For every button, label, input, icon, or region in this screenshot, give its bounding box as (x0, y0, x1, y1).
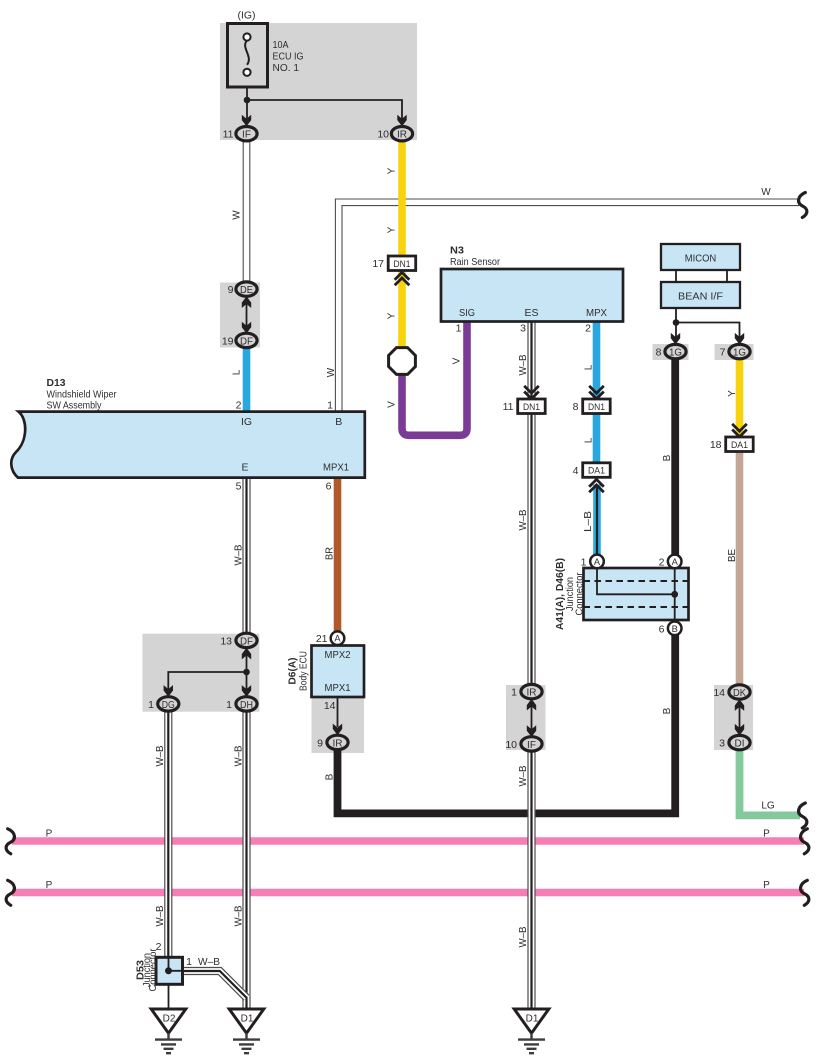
wire D53 to ground D2 (168, 985, 170, 1010)
arrow down into 10 IF (527, 725, 536, 737)
double chevron below 4 DA1 (589, 479, 604, 492)
junction connector pin 2 A (668, 555, 682, 569)
svg-text:ECU IG: ECU IG (273, 51, 304, 63)
svg-text:6: 6 (326, 481, 332, 493)
svg-text:SIG: SIG (459, 307, 475, 319)
ground D1 center (514, 1009, 549, 1053)
svg-text:IF: IF (242, 130, 251, 141)
gray background 7 1G connector (715, 344, 754, 360)
junction connector D53 box (156, 957, 183, 984)
svg-text:7: 7 (720, 347, 726, 359)
svg-text:Y: Y (727, 390, 738, 397)
svg-text:3: 3 (520, 323, 526, 335)
label N3 rain sensor (450, 244, 500, 267)
svg-text:DI: DI (735, 739, 745, 750)
svg-text:A: A (594, 557, 601, 567)
fuse 10A ECU IG NO.1 (228, 24, 268, 88)
wire W from IF to DE (243, 141, 251, 283)
connector 1 DH (236, 697, 257, 711)
svg-text:MICON: MICON (685, 252, 717, 264)
gray background 8 1G connector (653, 344, 689, 360)
svg-text:Rain Sensor: Rain Sensor (450, 256, 500, 268)
svg-text:DE: DE (240, 285, 253, 296)
connector 9 DE (236, 282, 257, 296)
svg-text:1G: 1G (669, 348, 682, 359)
svg-text:Connector: Connector (147, 948, 159, 991)
wire B from 8 1G to junction connector pin 2A (671, 359, 679, 555)
wire body ECU pin 14 to 9 IR (337, 697, 339, 727)
svg-text:14: 14 (713, 687, 725, 699)
links MICON to BEAN (676, 270, 727, 282)
svg-text:IR: IR (397, 130, 407, 141)
svg-text:19: 19 (222, 335, 234, 347)
junction connector A41(A) D46(B) box (584, 568, 689, 620)
svg-text:L: L (583, 364, 594, 370)
svg-text:A: A (334, 634, 341, 644)
svg-text:W–B: W–B (518, 926, 529, 947)
svg-text:8: 8 (656, 347, 662, 359)
svg-text:11: 11 (223, 129, 234, 141)
svg-text:DG: DG (162, 700, 175, 711)
svg-text:DN1: DN1 (394, 259, 411, 269)
svg-text:MPX1: MPX1 (325, 682, 351, 694)
svg-text:BEAN I/F: BEAN I/F (678, 290, 723, 302)
svg-text:L: L (231, 369, 242, 375)
gray background DF/DG/DH connector group (142, 634, 259, 712)
wire W-B from N3 pin ES to 1 IR (527, 321, 535, 685)
wire B from 9 IR to junction connector pin 6B (338, 635, 676, 813)
wire P upper rail (12, 837, 804, 844)
svg-text:MPX: MPX (586, 307, 607, 319)
connector 14 DK (729, 685, 750, 699)
connector 17 DN1 (388, 256, 416, 271)
body ECU pin 21 A (331, 631, 345, 645)
connector 10 IF (521, 737, 542, 751)
arrow down into 3 DI (735, 724, 744, 736)
svg-text:W–B: W–B (155, 905, 166, 926)
label D6(A) body ECU (287, 651, 310, 691)
arrow up into DE (242, 296, 251, 308)
svg-text:IG: IG (241, 416, 252, 428)
noise filter octagon (389, 348, 416, 375)
svg-text:21: 21 (316, 633, 328, 645)
svg-text:P: P (763, 880, 770, 891)
connector 7 1G (729, 344, 750, 358)
svg-text:1: 1 (511, 687, 517, 699)
svg-text:W–B: W–B (233, 544, 244, 565)
gray background 1 IR / 10 IF connector pair (506, 685, 546, 750)
svg-text:A: A (672, 557, 679, 567)
double chevron above 18 DA1 (732, 424, 747, 437)
svg-text:L–B: L–B (583, 511, 594, 532)
arrow into 1 DG (164, 685, 173, 697)
wire BE from 18 DA1 to 14 DK (736, 451, 744, 685)
svg-text:Windshield Wiper: Windshield Wiper (47, 388, 117, 400)
label 10A ECU IG NO. 1 (273, 39, 304, 74)
break symbol P lower right (801, 880, 809, 905)
svg-text:8: 8 (573, 401, 579, 413)
svg-text:1: 1 (581, 556, 587, 568)
wire BR from D13 pin MPX1 to body ECU pin 21A (334, 477, 342, 632)
D53 pin number 1 and W-B label (186, 956, 220, 968)
wire L from N3 pin MPX to 4 DA1 (593, 321, 601, 477)
D13 windshield wiper SW assembly box (11, 412, 365, 478)
break symbol W wire right (799, 193, 807, 218)
svg-text:18: 18 (710, 439, 722, 451)
gray background DE/DF connector pair (220, 283, 260, 348)
svg-text:P: P (46, 828, 53, 839)
svg-text:W–B: W–B (198, 957, 220, 968)
wire BEAN to 1G connectors (676, 308, 740, 338)
svg-text:(IG): (IG) (238, 10, 256, 22)
svg-text:B: B (672, 624, 678, 634)
svg-text:DN1: DN1 (523, 402, 540, 412)
junction connector pin 1 A (590, 555, 604, 569)
svg-text:W: W (761, 187, 771, 198)
svg-text:10: 10 (505, 739, 517, 751)
svg-text:W–B: W–B (155, 745, 166, 766)
wire W-B from 1 DH to ground D1 left (242, 711, 250, 1008)
svg-text:Y: Y (386, 167, 397, 174)
svg-text:V: V (452, 357, 463, 364)
break symbol P upper left (6, 829, 14, 854)
ground D1 left (229, 1009, 264, 1053)
connector 3 DI (729, 735, 750, 749)
svg-text:Body ECU: Body ECU (298, 651, 310, 691)
svg-text:IR: IR (333, 738, 343, 749)
svg-text:14: 14 (324, 700, 336, 712)
break symbol LG wire right (799, 803, 807, 828)
arrow into 1 DH (242, 685, 251, 697)
wire V from noise filter to N3 pin SIG (402, 321, 467, 435)
svg-text:E: E (241, 462, 248, 474)
MICON box (661, 244, 740, 270)
double chevron above 11 DN1 (524, 386, 539, 399)
BEAN I/F box (661, 282, 740, 308)
double chevron above 8 DN1 (589, 386, 604, 399)
svg-text:1: 1 (327, 400, 333, 412)
gray background below body ECU (9 IR) (312, 697, 365, 753)
connector 1 DG (158, 697, 179, 711)
svg-text:W: W (231, 210, 242, 220)
wire W-B from D53 pin 1 joining D1 ground wire (183, 971, 247, 998)
wire Y from IR to noise filter (398, 141, 406, 349)
svg-text:D13: D13 (47, 377, 66, 389)
svg-text:N3: N3 (450, 244, 464, 256)
arrow up into 13 DF (242, 648, 251, 660)
wire Y from 7 1G to 18 DA1 (736, 359, 744, 444)
arrow up into 1 IR (527, 699, 536, 711)
break symbol P lower left (6, 880, 14, 905)
link line DE to DF (246, 299, 248, 331)
wire W horizontal from right break down to D13 pin B (339, 202, 799, 411)
svg-text:DA1: DA1 (588, 466, 605, 476)
svg-text:P: P (763, 828, 770, 839)
connector 19 DF (236, 333, 257, 347)
svg-text:B: B (662, 707, 673, 714)
svg-text:B: B (335, 416, 342, 428)
arrow into 9 IR (333, 724, 342, 736)
svg-text:L: L (583, 437, 594, 443)
svg-text:V: V (387, 401, 398, 408)
gray background 14 DK / 3 DI connector pair (714, 685, 753, 750)
svg-text:D1: D1 (241, 1013, 254, 1024)
connector 18 DA1 (726, 437, 754, 452)
wire LG from 3 DI to right break (740, 750, 801, 816)
wire L from DF to D13 pin IG (243, 348, 251, 414)
svg-text:1: 1 (456, 323, 462, 335)
svg-text:2: 2 (659, 556, 665, 568)
svg-text:D2: D2 (163, 1013, 176, 1024)
connector 8 1G (665, 344, 686, 358)
svg-text:SW Assembly: SW Assembly (47, 400, 103, 412)
arrow up into 14 DK (735, 699, 744, 711)
wire W-B from D13 pin E to 13 DF (242, 477, 250, 633)
svg-text:1G: 1G (733, 348, 746, 359)
svg-text:1: 1 (226, 699, 232, 711)
svg-text:IF: IF (527, 740, 536, 751)
ground D2 (151, 1009, 186, 1053)
svg-text:DK: DK (733, 688, 746, 699)
svg-text:DA1: DA1 (731, 440, 748, 450)
double chevron below 17 DN1 (395, 272, 410, 285)
connector 11 DN1 (518, 399, 546, 414)
svg-text:2: 2 (585, 323, 591, 335)
connector 13 DF (236, 633, 257, 647)
svg-text:10: 10 (377, 129, 389, 141)
svg-text:17: 17 (372, 258, 384, 270)
connector 4 DA1 (583, 463, 611, 478)
connector 11 IF (236, 127, 257, 141)
svg-text:W–B: W–B (518, 509, 529, 530)
svg-text:D1: D1 (526, 1013, 539, 1024)
arrow into 10 IR (397, 115, 406, 127)
svg-text:Y: Y (386, 226, 397, 233)
label D13 (47, 377, 117, 412)
svg-text:6: 6 (659, 623, 665, 635)
svg-text:MPX2: MPX2 (325, 649, 351, 661)
svg-text:W–B: W–B (233, 905, 244, 926)
svg-text:W–B: W–B (233, 745, 244, 766)
svg-text:NO. 1: NO. 1 (273, 62, 300, 74)
label D53 junction connector (135, 948, 160, 991)
wire L-B from 4 DA1 to junction connector pin 1A (593, 485, 601, 556)
svg-text:ES: ES (524, 307, 538, 319)
svg-text:9: 9 (317, 737, 323, 749)
body ECU D6(A) box (312, 646, 365, 698)
svg-text:W–B: W–B (518, 765, 529, 786)
connector 1 IR (521, 684, 542, 698)
arrow into 7 1G (735, 333, 744, 345)
svg-text:LG: LG (761, 801, 775, 812)
svg-text:2: 2 (156, 941, 162, 953)
wire fuse to junction dot (246, 76, 248, 100)
svg-text:BR: BR (325, 547, 336, 560)
N3 rain sensor box (441, 269, 623, 322)
svg-text:1: 1 (148, 699, 154, 711)
svg-text:2: 2 (236, 400, 242, 412)
svg-text:5: 5 (236, 481, 242, 493)
svg-text:DH: DH (240, 700, 253, 711)
svg-text:P: P (46, 880, 53, 891)
svg-text:W: W (326, 367, 337, 377)
break symbol P upper right (801, 829, 809, 854)
link line IR to IF (531, 702, 533, 735)
svg-text:4: 4 (573, 465, 579, 477)
svg-text:W–B: W–B (518, 354, 529, 375)
svg-text:Y: Y (386, 312, 397, 319)
connector 8 DN1 (583, 399, 611, 414)
svg-text:MPX1: MPX1 (323, 462, 349, 474)
arrow into 11 IF (242, 115, 251, 127)
fuse block gray background (220, 23, 417, 140)
wire junction to IR (247, 100, 402, 119)
arrow down into DF (242, 322, 251, 334)
svg-text:10A: 10A (273, 39, 289, 51)
svg-text:13: 13 (220, 635, 232, 647)
connector 9 IR (327, 735, 348, 749)
svg-text:Connector: Connector (574, 572, 586, 615)
wire P lower rail (12, 889, 804, 896)
svg-text:B: B (325, 773, 336, 780)
svg-text:DF: DF (240, 336, 253, 347)
label junction connector A41 (564, 572, 586, 615)
junction connector pin 6 B (668, 622, 682, 636)
svg-text:DN1: DN1 (588, 402, 605, 412)
svg-text:11: 11 (503, 401, 514, 413)
wire W-B from 1 DG to junction connector D53 (164, 711, 172, 958)
svg-text:1: 1 (186, 956, 192, 968)
link line DK to DI (739, 702, 741, 734)
svg-text:3: 3 (719, 738, 725, 750)
svg-text:9: 9 (228, 284, 234, 296)
wire W-B from 10 IF to ground D1 center (527, 751, 535, 1008)
wire junction to IF (246, 100, 248, 119)
wire 13 DF to DG and DH (168, 655, 246, 689)
svg-text:B: B (662, 454, 673, 461)
svg-text:IR: IR (527, 688, 537, 699)
junction dot below fuse (244, 97, 251, 104)
junction dot below 13 DF (243, 669, 250, 676)
svg-text:BE: BE (727, 549, 738, 562)
svg-text:DF: DF (240, 636, 253, 647)
arrow into 8 1G (671, 333, 680, 345)
connector 10 IR (391, 127, 412, 141)
junction dot below BEAN (673, 319, 680, 326)
